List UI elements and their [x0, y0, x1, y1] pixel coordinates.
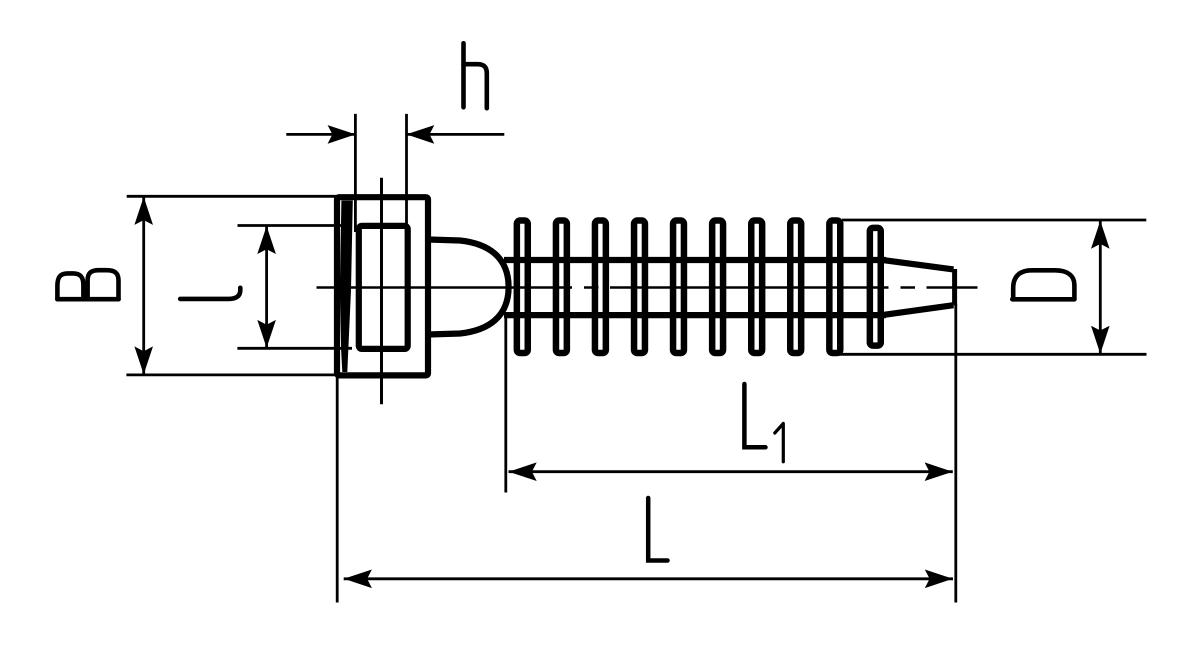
dimension line L1 [509, 470, 953, 473]
fin 3 [595, 221, 606, 353]
label L1 [744, 384, 765, 447]
dimension line l [265, 226, 268, 347]
label l rotated [180, 288, 240, 299]
label B rotated [57, 270, 118, 299]
cone taper bottom [881, 305, 954, 315]
head centre mark line [380, 178, 383, 405]
dimension line h left part [286, 133, 355, 136]
dimension line B [142, 198, 145, 375]
extension line L right shared [954, 304, 957, 603]
fin 4 [634, 221, 645, 353]
fin 6 [712, 221, 723, 353]
head outer rectangle [337, 197, 428, 375]
extension line B top [127, 195, 340, 198]
label D rotated [1012, 270, 1074, 299]
extension line h right [405, 114, 408, 232]
label h [464, 43, 487, 108]
head chamfer slant line [340, 201, 353, 373]
shaft top line [504, 257, 886, 263]
fin 8 [790, 221, 801, 353]
extension line L1 left [504, 318, 507, 493]
fin 5 [673, 221, 684, 353]
extension line D top [842, 219, 1146, 222]
extension line l bottom [237, 347, 352, 350]
extension line D bottom [837, 353, 1147, 356]
fin 7 [751, 221, 762, 353]
label L [648, 498, 667, 561]
extension line l top [238, 224, 353, 227]
dimension line h right part [407, 133, 505, 136]
extension line h left [354, 114, 357, 232]
fin 1 [517, 221, 528, 353]
fin 10 short [870, 228, 881, 346]
head inner slot rectangle [359, 226, 408, 349]
tip face [952, 269, 957, 306]
label L1 subscript 1 [775, 424, 784, 462]
fin 2 [556, 221, 567, 353]
extension line L left [336, 376, 339, 603]
neck dome [428, 240, 509, 335]
centre axis line [317, 286, 978, 289]
dimension line L [344, 577, 953, 580]
fin 9 [829, 221, 840, 353]
dimension line D [1099, 221, 1102, 353]
shaft bottom line [504, 312, 886, 318]
extension line B bottom [126, 373, 340, 376]
cone taper top [881, 260, 954, 270]
